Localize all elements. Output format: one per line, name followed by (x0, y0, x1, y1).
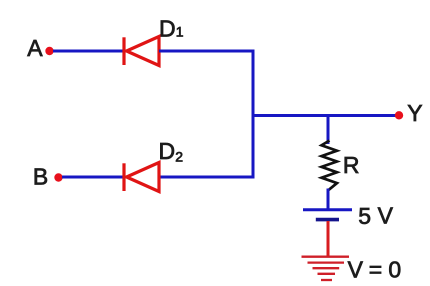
diode D2 (124, 163, 159, 192)
svg-text:B: B (33, 164, 48, 190)
battery 5V negative plate (316, 218, 339, 222)
node B terminal dot (54, 173, 62, 181)
node Y terminal dot (395, 111, 403, 119)
wire output to resistor top lead (327, 116, 330, 145)
svg-text:=: = (369, 256, 382, 282)
svg-text:2: 2 (175, 148, 183, 164)
wire vertical bus (252, 50, 255, 179)
wire B to D2 (62, 176, 123, 179)
svg-text:A: A (27, 35, 43, 61)
svg-text:V: V (378, 202, 394, 228)
svg-text:5: 5 (358, 203, 371, 229)
node A terminal dot (45, 47, 53, 55)
svg-text:Y: Y (407, 100, 422, 126)
svg-text:D: D (159, 15, 176, 41)
ground symbol (302, 257, 350, 280)
resistor R zigzag (322, 141, 338, 190)
svg-text:D: D (159, 138, 176, 164)
svg-text:0: 0 (388, 257, 401, 283)
wire junction to output Y (253, 114, 396, 117)
wire resistor bottom lead to battery (327, 189, 330, 210)
wire D2 to junction corner (159, 176, 255, 179)
battery 5V positive plate (303, 208, 352, 211)
wire D1 to junction corner (159, 50, 255, 53)
wire A to D1 (53, 50, 123, 53)
svg-text:1: 1 (176, 24, 184, 40)
svg-text:V: V (348, 256, 364, 282)
wire battery to ground (327, 221, 330, 257)
diode D1 (124, 37, 159, 66)
svg-text:R: R (343, 152, 360, 178)
